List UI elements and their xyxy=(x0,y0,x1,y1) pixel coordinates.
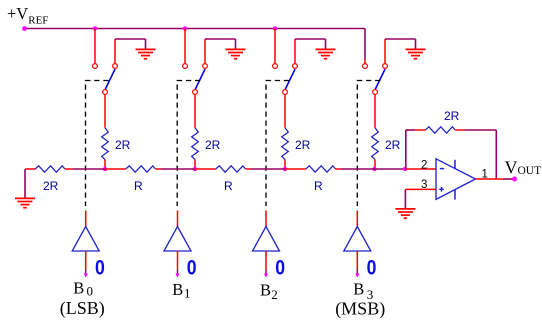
svg-text:1: 1 xyxy=(184,286,191,301)
svg-text:2: 2 xyxy=(421,160,427,172)
switch S3 lever (blue) xyxy=(375,69,385,89)
svg-text:0: 0 xyxy=(367,256,377,280)
node switch S3 throw terminal ground side xyxy=(383,64,388,69)
svg-text:B: B xyxy=(260,281,271,300)
resistor R (ladder segment 1) lead xyxy=(105,168,126,170)
resistor 2R (vertical, bit 3) xyxy=(372,128,379,160)
switch S1 lever (blue) xyxy=(195,69,205,89)
junction ladder node 0 xyxy=(103,167,107,171)
svg-text:2: 2 xyxy=(271,287,278,302)
buffer amplifier B3 (triangle) xyxy=(344,227,371,252)
wire output to VOUT terminal xyxy=(503,178,513,180)
svg-text:2R: 2R xyxy=(43,179,59,193)
node switch S0 throw terminal ground side xyxy=(113,64,118,69)
wire ladder segment 2 xyxy=(251,168,285,170)
junction rail node 1 xyxy=(93,26,97,30)
wire switch S0 ground-throw over xyxy=(115,38,146,40)
buffer amplifier B0 (triangle) xyxy=(72,227,99,252)
svg-text:2R: 2R xyxy=(444,109,460,123)
wire ladder left corner down xyxy=(24,169,26,198)
wire buffer B3 input stub xyxy=(356,251,358,270)
wire pin3 down to ground xyxy=(404,189,406,208)
svg-text:2R: 2R xyxy=(385,138,401,152)
resistor 2R (vertical, bit 2) xyxy=(282,128,289,160)
ground top of section 2 xyxy=(316,48,336,50)
node buffer B3 input terminal (arrow) xyxy=(355,274,359,278)
wire rail drop to switch S1 xyxy=(184,29,186,64)
junction ladder node 1 xyxy=(193,167,197,171)
svg-text:0: 0 xyxy=(187,256,197,280)
node VREF left terminal xyxy=(22,26,27,31)
node switch S2 throw terminal VREF side xyxy=(273,64,278,69)
wire switch S1 ground-throw over xyxy=(205,38,236,40)
svg-text:R: R xyxy=(224,179,233,193)
node buffer B2 input terminal (arrow) xyxy=(264,274,268,278)
svg-text:B: B xyxy=(172,280,183,299)
resistor R (ladder segment 1) xyxy=(126,166,156,172)
resistor R (ladder segment 2) xyxy=(216,166,246,172)
wire switch S2 ground-throw up xyxy=(294,39,296,63)
wire feedback top left xyxy=(406,129,416,131)
wire ladder segment to node 0 xyxy=(73,168,105,170)
svg-text:B: B xyxy=(353,279,364,298)
node buffer B0 input terminal (arrow) xyxy=(84,274,88,278)
svg-text:0: 0 xyxy=(275,256,285,280)
resistor R (ladder segment 3) xyxy=(306,166,336,172)
node switch S3 throw terminal VREF side xyxy=(363,64,368,69)
node buffer B1 input terminal (arrow) xyxy=(175,274,179,278)
svg-text:(MSB): (MSB) xyxy=(335,299,385,320)
wire rail drop to switch S0 xyxy=(94,29,96,64)
resistor 2R (vertical, bit 0) xyxy=(102,128,109,160)
control dashed line from B0 buffer to switch S0 xyxy=(86,81,109,207)
wire feedback down to output xyxy=(495,130,497,179)
wire ladder segment 3 xyxy=(341,168,375,170)
wire buffer B2 input stub xyxy=(265,251,267,270)
wire buffer B1 output up xyxy=(177,211,179,227)
node switch S1 throw terminal VREF side xyxy=(183,64,188,69)
wire switch S1 ground-throw up xyxy=(204,39,206,63)
junction rail node 3 xyxy=(273,26,277,30)
wire switch S2 ground-throw over xyxy=(295,38,326,40)
ground op-amp non-inverting input xyxy=(395,208,415,210)
resistor 2R (ladder termination) lead left xyxy=(25,168,36,170)
switch S0 lever (blue) xyxy=(105,69,115,89)
wire op-amp pin2 lead xyxy=(405,168,436,170)
switch S2 lever (blue) xyxy=(285,69,295,89)
wire switch S2 pole to resistor 2R xyxy=(284,95,286,128)
node switch S1 throw terminal ground side xyxy=(203,64,208,69)
node switch S3 pole terminal xyxy=(373,90,378,95)
svg-text:R: R xyxy=(314,179,323,193)
ground top of section 1 xyxy=(226,48,246,50)
wire switch S0 ground-throw up xyxy=(114,39,116,63)
wire buffer B1 input stub xyxy=(177,251,179,270)
buffer amplifier B2 (triangle) xyxy=(253,227,280,252)
node switch S0 throw terminal VREF side xyxy=(93,64,98,69)
resistor 2R (ladder termination) xyxy=(35,166,65,172)
junction ladder node 3 xyxy=(372,167,376,171)
op-amp U1 triangle xyxy=(436,159,476,200)
wire ladder segment 1 xyxy=(161,168,195,170)
op-amp power pin marks xyxy=(454,160,456,169)
svg-text:2R: 2R xyxy=(205,138,221,152)
junction ladder node 2 xyxy=(283,167,287,171)
resistor R (ladder segment 2) lead xyxy=(195,168,216,170)
wire buffer B3 output up xyxy=(356,211,358,227)
wire VREF rail xyxy=(25,28,366,30)
node switch S2 pole terminal xyxy=(283,90,288,95)
wire switch S3 ground-throw over xyxy=(385,38,416,40)
wire rail drop to switch S2 xyxy=(274,29,276,64)
svg-text:B: B xyxy=(73,278,84,297)
wire switch S0 pole to resistor 2R xyxy=(104,95,106,128)
svg-text:0: 0 xyxy=(87,283,94,298)
svg-text:R: R xyxy=(134,179,143,193)
wire op-amp pin3 lead xyxy=(405,188,436,190)
wire buffer B0 input stub xyxy=(85,251,87,270)
ground ladder termination xyxy=(15,197,35,199)
wire switch S3 ground-throw up xyxy=(384,39,386,63)
resistor 2R (feedback) lead left xyxy=(415,129,425,131)
wire buffer B0 output up xyxy=(85,211,87,227)
buffer amplifier B1 (triangle) xyxy=(164,227,191,252)
svg-text:0: 0 xyxy=(95,256,105,280)
ground top of section 3 xyxy=(406,48,426,50)
node switch S1 pole terminal xyxy=(193,90,198,95)
wire feedback up from input node xyxy=(405,130,407,169)
wire buffer B2 output up xyxy=(265,211,267,227)
control dashed line from B3 buffer to switch S3 xyxy=(357,81,380,207)
wire feedback top right xyxy=(465,129,496,131)
node switch S2 throw terminal ground side xyxy=(293,64,298,69)
wire switch S3 pole to resistor 2R xyxy=(374,95,376,128)
resistor R (ladder segment 3) lead xyxy=(285,168,306,170)
junction op-amp inverting input node xyxy=(403,167,407,171)
wire ladder to op-amp input xyxy=(375,168,406,170)
resistor 2R (feedback) xyxy=(425,127,455,133)
resistor 2R (vertical, bit 1) xyxy=(192,128,199,160)
node VOUT terminal xyxy=(512,177,517,182)
wire rail corner drop to switch S3 xyxy=(364,29,366,60)
wire op-amp output xyxy=(476,178,504,180)
svg-text:2R: 2R xyxy=(115,138,131,152)
control dashed line from B1 buffer to switch S1 xyxy=(177,81,200,207)
control dashed line from B2 buffer to switch S2 xyxy=(266,81,289,207)
junction rail node 2 xyxy=(183,26,187,30)
ground top of section 0 xyxy=(136,48,156,50)
node switch S0 pole terminal xyxy=(103,90,108,95)
op-amp plus sign xyxy=(439,188,444,190)
svg-text:2R: 2R xyxy=(295,138,311,152)
wire switch S1 pole to resistor 2R xyxy=(194,95,196,128)
svg-text:(LSB): (LSB) xyxy=(60,298,105,319)
op-amp minus sign xyxy=(440,168,444,170)
